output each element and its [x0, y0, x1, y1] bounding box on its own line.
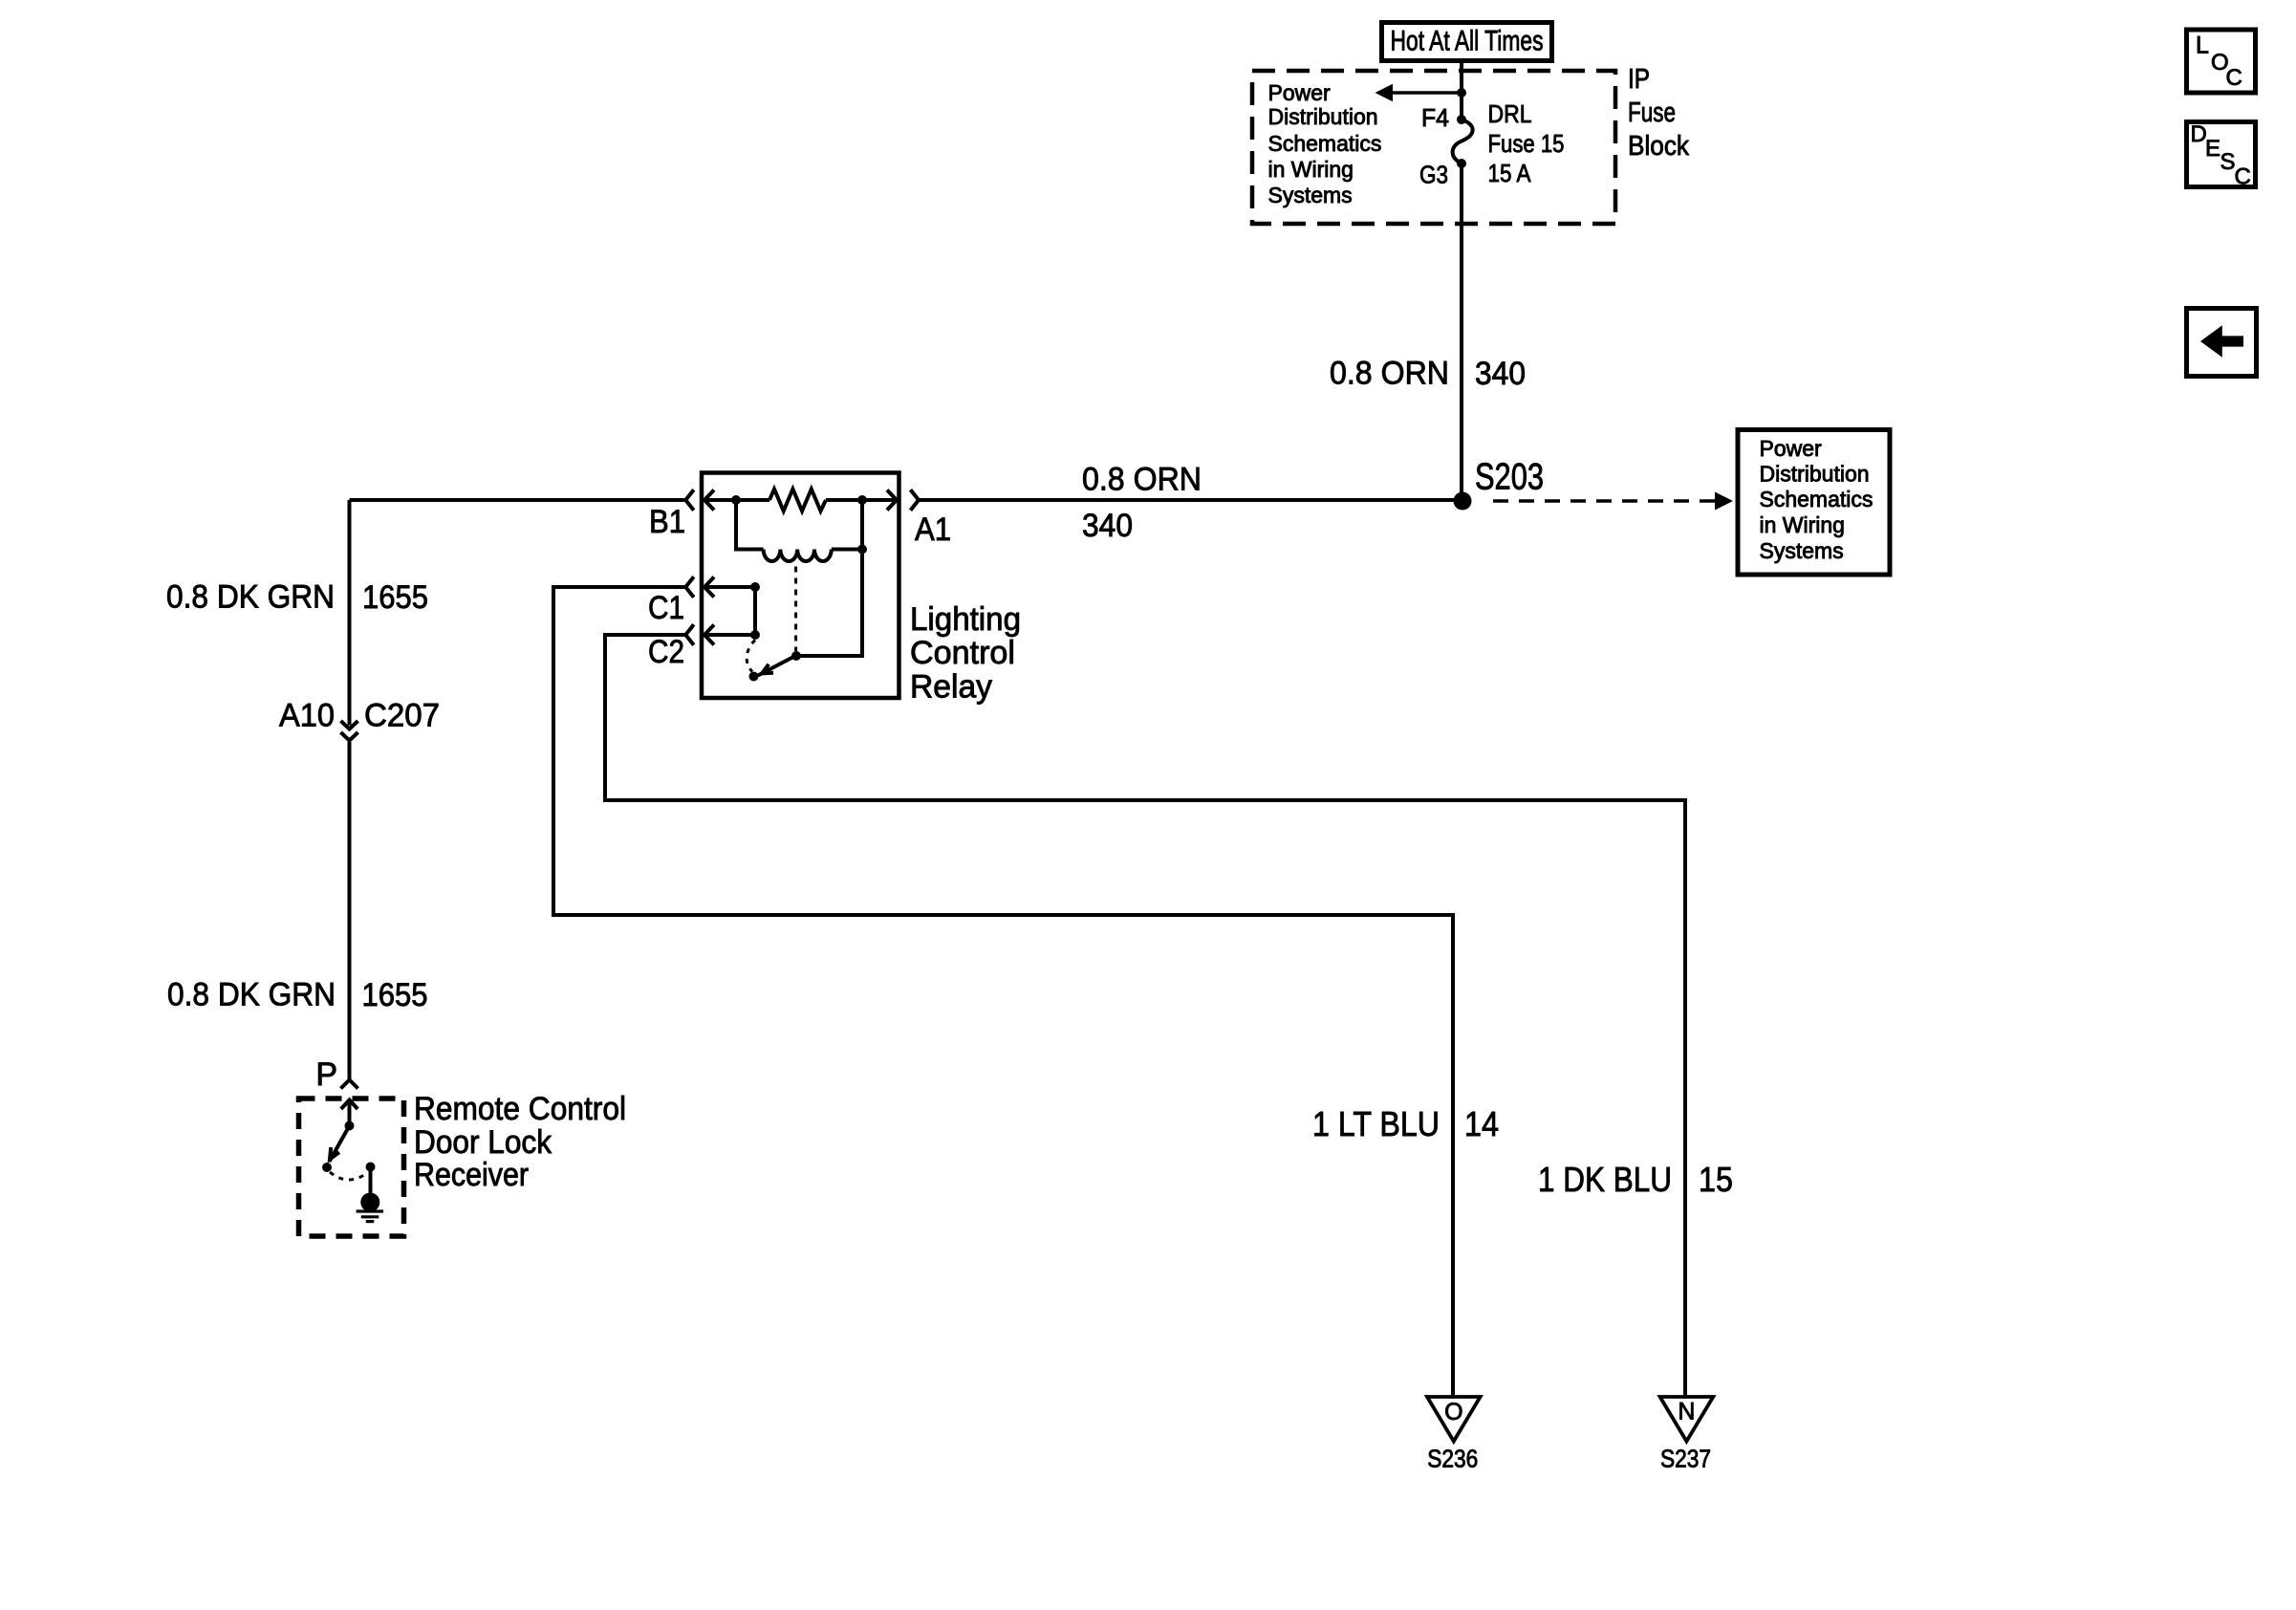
- Remote Control Door Lock Receiver label: [414, 1091, 626, 1193]
- svg-text:C2: C2: [648, 634, 684, 670]
- node dot left of resistor: [731, 495, 741, 505]
- svg-text:S203: S203: [1475, 457, 1544, 498]
- wire label 1 DK BLU / 15: [1538, 1160, 1733, 1199]
- dashed throw from C2 contact to switch contact: [747, 641, 755, 672]
- svg-text:P: P: [315, 1056, 337, 1093]
- receiver input arrow (up): [341, 1100, 357, 1126]
- svg-text:C207: C207: [364, 698, 440, 734]
- svg-text:C1: C1: [648, 590, 684, 626]
- arrow to power distribution schematics (left): [1375, 84, 1462, 101]
- dashed reference arrow from S203 to Power Distribution box: [1493, 492, 1733, 511]
- svg-text:N: N: [1678, 1399, 1695, 1425]
- svg-text:Remote Control: Remote Control: [414, 1091, 626, 1127]
- ground ball: [360, 1193, 379, 1212]
- svg-text:IP: IP: [1628, 64, 1650, 95]
- svg-text:A10: A10: [279, 698, 335, 734]
- C2 contact dot: [750, 630, 760, 640]
- wire 0.8 DK GRN: C207 down to P: [348, 742, 352, 1080]
- connector A10 / C207 labels: [279, 698, 440, 734]
- svg-text:S237: S237: [1660, 1444, 1711, 1472]
- svg-text:S: S: [2220, 149, 2236, 175]
- relay coil (4 bumps): [764, 550, 832, 562]
- wire 1 DK BLU 15: relay C2 to splice S237: [605, 635, 1685, 1397]
- svg-text:Lighting: Lighting: [910, 601, 1021, 638]
- svg-text:Control: Control: [910, 635, 1015, 671]
- svg-text:Fuse: Fuse: [1628, 98, 1676, 128]
- main wire 0.8 ORN 340: relay B1 left corner to chevron: [350, 498, 686, 502]
- svg-text:Distribution: Distribution: [1268, 104, 1378, 129]
- svg-text:in Wiring: in Wiring: [1268, 157, 1354, 182]
- junction node above F4: [1457, 88, 1466, 98]
- relay pin arrow A1 (inside box, pointing right): [887, 490, 897, 511]
- switch contact dot (lower): [749, 672, 759, 682]
- Lighting Control Relay label: [910, 601, 1021, 706]
- svg-text:14: 14: [1464, 1104, 1499, 1143]
- svg-text:15 A: 15 A: [1488, 159, 1532, 187]
- receiver switch contact dot (left): [322, 1163, 332, 1172]
- receiver switch arm with arrowhead: [330, 1126, 350, 1163]
- relay switch arm with arrowhead: [758, 656, 796, 676]
- svg-text:Door Lock: Door Lock: [414, 1124, 552, 1161]
- splice S237 triangle: [1660, 1397, 1714, 1472]
- ground stem: [369, 1167, 373, 1195]
- in-line connector C207 (arrow + receptacle): [341, 721, 358, 741]
- receiver switch pivot dot: [345, 1121, 355, 1131]
- svg-text:C: C: [2235, 164, 2251, 190]
- svg-text:Distribution: Distribution: [1760, 462, 1870, 487]
- wire label 0.8 ORN / 340 (vertical run): [1330, 356, 1526, 393]
- receiver contact dot (right, to ground): [366, 1163, 376, 1172]
- svg-text:0.8 DK GRN: 0.8 DK GRN: [167, 977, 336, 1013]
- terminal dot G3: [1457, 159, 1466, 168]
- dashed throw arc: [330, 1172, 368, 1180]
- fuse value label DRL Fuse 15 15 A: [1488, 99, 1565, 187]
- svg-text:0.8 DK GRN: 0.8 DK GRN: [166, 579, 335, 616]
- wire resistor to A1: [826, 498, 897, 502]
- relay actuator dashed link: [794, 567, 797, 652]
- node dot right of resistor: [857, 495, 867, 505]
- svg-text:E: E: [2205, 136, 2220, 162]
- Power Distribution Schematics reference box (right): [1738, 430, 1890, 576]
- svg-text:1 DK BLU: 1 DK BLU: [1538, 1160, 1672, 1199]
- svg-text:L: L: [2196, 32, 2209, 58]
- svg-text:B1: B1: [649, 504, 685, 540]
- svg-text:Systems: Systems: [1268, 183, 1353, 207]
- wire 1 LT BLU 14: relay C1 to splice S236: [553, 587, 1453, 1397]
- svg-text:O: O: [1444, 1399, 1462, 1425]
- splice S236 triangle: [1427, 1397, 1481, 1472]
- svg-text:C: C: [2226, 65, 2242, 91]
- wire label 0.8 ORN / 340 (horizontal run): [1082, 462, 1202, 545]
- relay pin arrow C1 (inside box): [704, 577, 755, 598]
- svg-text:340: 340: [1082, 508, 1133, 544]
- IP Fuse Block label: [1628, 64, 1689, 162]
- wire coil to right node: [832, 548, 862, 552]
- C1 contact dot: [750, 582, 760, 592]
- svg-text:Systems: Systems: [1760, 538, 1844, 563]
- connector chevron at P: [341, 1080, 358, 1089]
- svg-text:Fuse 15: Fuse 15: [1488, 129, 1565, 158]
- note: Power Distribution Schematics in Wiring Systems (inside fuse block): [1268, 80, 1382, 207]
- Remote Control Door Lock Receiver dashed box: [299, 1099, 404, 1236]
- relay pin arrow C2 (inside box): [704, 625, 755, 645]
- connector chevron at A1: [911, 490, 920, 510]
- svg-text:Schematics: Schematics: [1268, 131, 1382, 156]
- connector chevron at C2: [685, 624, 694, 644]
- terminal dot F4: [1457, 115, 1466, 124]
- DESC icon box: [2187, 121, 2256, 190]
- switch pivot dot: [791, 651, 801, 661]
- svg-text:Receiver: Receiver: [414, 1157, 529, 1193]
- svg-text:Schematics: Schematics: [1760, 487, 1874, 511]
- IP Fuse Block dashed enclosure: [1252, 71, 1615, 224]
- svg-text:Block: Block: [1628, 131, 1689, 162]
- Hot At All Times feed box: [1382, 23, 1552, 61]
- wire label 1 LT BLU / 14: [1312, 1104, 1499, 1143]
- LOC icon box: [2187, 30, 2256, 93]
- back arrow icon box: [2187, 309, 2257, 377]
- svg-text:A1: A1: [915, 511, 951, 548]
- svg-text:15: 15: [1699, 1160, 1733, 1199]
- svg-text:340: 340: [1475, 356, 1526, 392]
- svg-text:1655: 1655: [362, 977, 428, 1013]
- svg-text:G3: G3: [1419, 161, 1448, 189]
- svg-text:Power: Power: [1760, 436, 1823, 461]
- ground symbol: [357, 1211, 384, 1222]
- Lighting Control Relay box: [702, 473, 899, 699]
- wire down from A1 node to switch common: [796, 500, 862, 656]
- wire label 0.8 DK GRN / 1655 (lower): [167, 977, 428, 1014]
- main wire: relay A1 to splice S203: [919, 498, 1462, 502]
- resistor (relay coil suppression): [769, 490, 826, 511]
- link C1 to C2 contacts: [753, 587, 757, 635]
- connector chevron at B1: [685, 490, 694, 510]
- svg-text:F4: F4: [1421, 103, 1449, 132]
- node dot right of coil: [857, 545, 867, 555]
- svg-text:in Wiring: in Wiring: [1760, 512, 1845, 537]
- fuse DRL Fuse 15 15 A (S-curve F4 to G3): [1453, 120, 1473, 163]
- svg-text:Power: Power: [1268, 80, 1332, 105]
- wire 0.8 ORN 340 from fuse G3 down to splice S203: [1460, 163, 1463, 501]
- branch down to relay coil: [736, 500, 764, 550]
- svg-text:0.8 ORN: 0.8 ORN: [1330, 356, 1449, 392]
- svg-text:1 LT BLU: 1 LT BLU: [1312, 1104, 1440, 1143]
- wire 0.8 DK GRN: B1 corner down to C207: [348, 500, 352, 726]
- connector chevron at C1: [685, 577, 694, 597]
- relay pin arrow B1 (inside box): [704, 490, 769, 511]
- svg-text:S236: S236: [1427, 1444, 1478, 1472]
- svg-text:0.8 ORN: 0.8 ORN: [1082, 462, 1202, 498]
- wire label 0.8 DK GRN / 1655 (upper): [166, 579, 428, 617]
- wire from Hot At All Times down to fuse F4: [1460, 58, 1463, 120]
- splice S203: [1454, 492, 1472, 511]
- svg-text:1655: 1655: [362, 579, 428, 616]
- svg-text:DRL: DRL: [1488, 99, 1532, 128]
- svg-text:Hot At All Times: Hot At All Times: [1391, 26, 1544, 57]
- svg-text:Relay: Relay: [910, 669, 992, 706]
